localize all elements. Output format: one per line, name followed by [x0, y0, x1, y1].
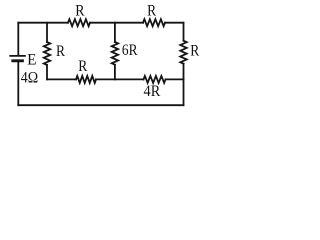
- svg-text:E: E: [27, 51, 36, 68]
- svg-text:R: R: [190, 43, 199, 60]
- resistor R1 (top left, horizontal R): [68, 19, 90, 26]
- wire middle: R6 to resistor R7 (4R): [96, 78, 144, 80]
- svg-text:4Ω: 4Ω: [21, 70, 38, 87]
- wire middle: left end to resistor R6: [47, 78, 76, 80]
- svg-text:R: R: [147, 2, 156, 19]
- wire left: top-left corner down to battery positive plate: [17, 23, 19, 56]
- wire branch: top node down to resistor R4 (6R): [114, 23, 116, 42]
- wire branch: top node down to resistor R3: [46, 23, 48, 42]
- wire middle: R7 to right-wire node: [166, 78, 184, 80]
- resistor R5 (right side vertical R): [180, 41, 186, 64]
- resistor R7 (4R, horizontal): [144, 76, 166, 83]
- wire top: R2 to top-right corner: [165, 22, 184, 24]
- wire top: R1 to resistor R2: [90, 22, 143, 24]
- wire left: battery negative plate down to bottom-left corner: [17, 62, 19, 105]
- resistor R2 (top right, horizontal R): [143, 19, 165, 26]
- wire branch: R3 down to middle-wire left end: [46, 65, 48, 79]
- svg-text:6R: 6R: [122, 42, 138, 59]
- wire right: R5 down through middle-wire node to bottom-right corner: [183, 64, 185, 105]
- resistor R4 (6R, middle vertical): [112, 42, 118, 65]
- svg-text:R: R: [75, 3, 85, 20]
- wire right: top-right corner down to resistor R5: [183, 23, 185, 41]
- svg-text:R: R: [56, 43, 65, 60]
- battery E positive plate (long thin): [10, 55, 25, 57]
- wire bottom: [18, 104, 183, 106]
- battery E negative plate (short thick): [13, 59, 23, 62]
- resistor R6 (middle horizontal R): [76, 76, 96, 83]
- wire branch: R4 down to middle wire node: [114, 65, 116, 80]
- resistor R3 (left vertical R): [44, 42, 50, 65]
- svg-text:4R: 4R: [144, 83, 161, 100]
- wire top: left corner to resistor R1: [18, 22, 68, 24]
- svg-text:R: R: [78, 58, 87, 75]
